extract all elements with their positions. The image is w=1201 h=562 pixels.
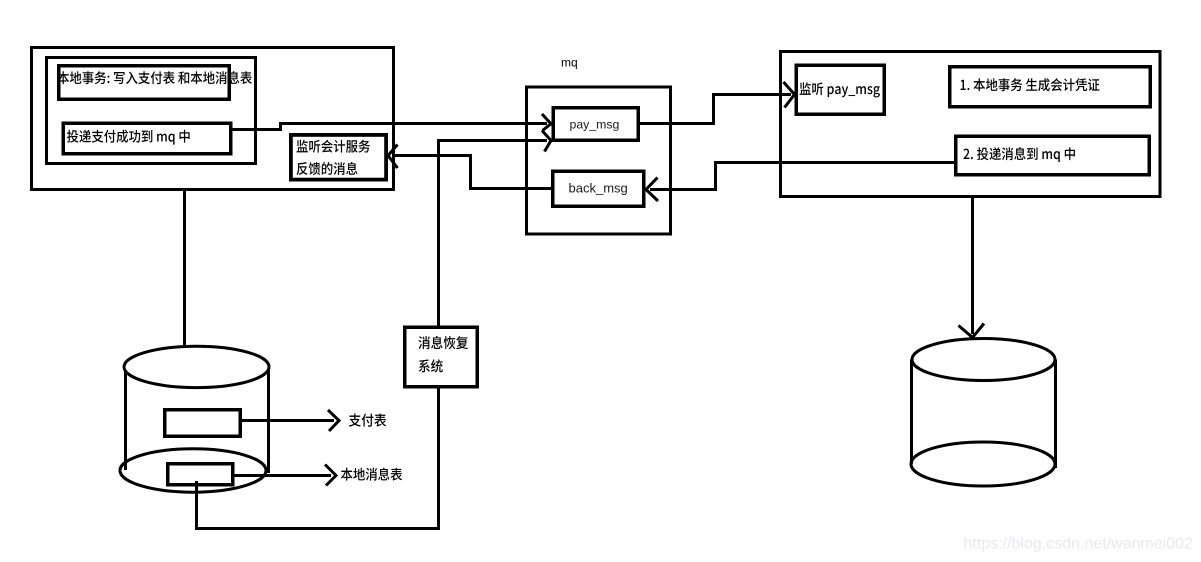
wire: left outer box down to left database bbox=[183, 191, 186, 347]
label tou-di-zhi-fu bbox=[67, 130, 190, 145]
arrowhead: into pay_msg upper bbox=[542, 114, 551, 131]
wire: local message record to label bbox=[234, 474, 331, 477]
wire: payment table record to label bbox=[242, 419, 334, 422]
cylinder: left database top ellipse bbox=[124, 346, 269, 387]
box: back_msg queue bbox=[553, 171, 644, 206]
cylinder: right accounting database body sides bbox=[912, 360, 1056, 469]
box: jian-ting-kuai-ji-fu-wu listener box bbox=[291, 135, 386, 180]
label jian-ting-kuai-ji line1 bbox=[297, 140, 370, 153]
box: pay_msg queue bbox=[553, 108, 638, 141]
box: tou-di-zhi-fu-cheng-gong text box bbox=[63, 123, 231, 154]
svg-text:https://blog.csdn.net/wanmei00: https://blog.csdn.net/wanmei002 bbox=[964, 536, 1194, 553]
box: ben-di-shi-wu text box bbox=[59, 66, 230, 100]
box: local message table record inside cylinder bbox=[168, 464, 233, 485]
box: payment table record inside cylinder bbox=[165, 410, 241, 437]
wire: right outer box down to right database bbox=[971, 198, 974, 334]
svg-text:mq: mq bbox=[561, 56, 578, 70]
label xiao-xi-hui-fu line2 bbox=[419, 359, 443, 372]
label 2 tou-di-xiao-xi bbox=[963, 147, 1074, 162]
label 1 ben-di-shi-wu bbox=[961, 78, 1100, 91]
cylinder: right database bottom ellipse bbox=[911, 442, 1055, 486]
box: left inner transaction container bbox=[47, 58, 256, 164]
label ben-di-shi-wu bbox=[57, 71, 252, 84]
wire: recovery system up to pay_msg bbox=[439, 141, 548, 327]
arrowhead: into pay_msg lower bbox=[542, 131, 551, 152]
box: jian-ting pay_msg listener box bbox=[796, 65, 884, 114]
arrowhead: to zhi-fu-biao label bbox=[328, 410, 339, 431]
arrowhead: to ben-di-xiao-xi-biao label bbox=[325, 465, 336, 486]
cylinder: left database bottom ellipse bbox=[120, 449, 266, 492]
label ben-di-xiao-xi-biao bbox=[341, 468, 402, 481]
box: mq container bbox=[527, 87, 671, 234]
label zhi-fu-biao bbox=[349, 413, 386, 426]
box: left service outer container bbox=[32, 48, 394, 190]
label jian-ting-kuai-ji line2 bbox=[297, 162, 358, 175]
box: step2 deliver message to mq bbox=[956, 136, 1150, 175]
wire: back_msg to kuai-ji listener box bbox=[392, 156, 551, 189]
wire: pay_msg to jian-ting pay_msg listener bbox=[640, 95, 791, 124]
svg-text:back_msg: back_msg bbox=[569, 181, 628, 196]
wire: step2 box to back_msg bbox=[650, 163, 954, 190]
wire: message table down around to recovery system bbox=[197, 388, 439, 529]
box: xiao-xi-hui-fu-xi-tong message recovery system bbox=[405, 327, 478, 387]
arrowhead: into back_msg right edge bbox=[646, 178, 658, 202]
arrowhead: into jian-ting pay_msg box bbox=[784, 82, 795, 108]
box: step1 generate accounting voucher bbox=[950, 67, 1151, 107]
arrowhead: into right database top bbox=[959, 324, 985, 338]
arrowhead: into jian-ting-kuai-ji box bbox=[388, 145, 398, 169]
label xiao-xi-hui-fu line1 bbox=[418, 336, 468, 349]
cylinder: left payment database body sides bbox=[126, 367, 269, 474]
cylinder: right database top ellipse bbox=[912, 339, 1055, 381]
wire: tou-di box to pay_msg bbox=[231, 124, 547, 130]
box: right accounting service outer container bbox=[781, 52, 1161, 197]
label jian-ting pay_msg bbox=[800, 82, 880, 97]
svg-text:pay_msg: pay_msg bbox=[570, 118, 620, 132]
